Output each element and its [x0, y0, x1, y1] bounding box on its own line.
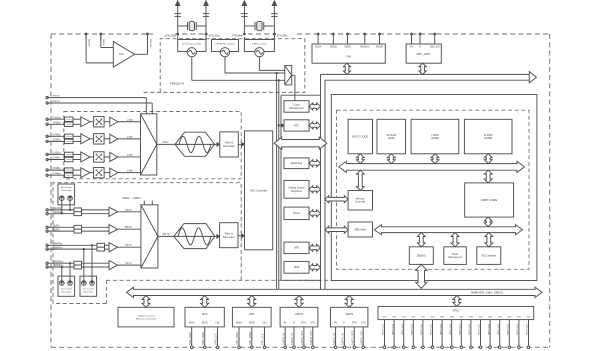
svg-text:TEMPINn: TEMPINn: [53, 247, 64, 249]
svg-text:Voltage & Current: Voltage & Current: [137, 314, 155, 317]
svg-text:GPIO_G08: GPIO_G08: [450, 323, 452, 335]
svg-text:SPI0_MISO: SPI0_MISO: [189, 332, 192, 345]
svg-text:PM: PM: [346, 55, 351, 59]
svg-text:SPI0_CLK: SPI0_CLK: [215, 333, 218, 345]
svg-text:VDDIO: VDDIO: [376, 47, 383, 49]
svg-text:500 Hz: 500 Hz: [125, 227, 133, 229]
svg-text:GPIO_G06: GPIO_G06: [469, 323, 471, 335]
svg-text:RLDINV: RLDINV: [88, 39, 90, 47]
svg-text:AC Current: AC Current: [61, 186, 72, 189]
svg-text:GPIO_G12: GPIO_G12: [412, 323, 414, 335]
svg-text:XTAL32kp: XTAL32kp: [165, 35, 177, 38]
svg-text:CH4INp: CH4INp: [52, 168, 61, 170]
svg-text:UART0_Tx: UART0_Tx: [291, 332, 294, 345]
svg-text:UART1_Rx: UART1_Rx: [333, 332, 336, 345]
svg-text:RLDIN: RLDIN: [102, 39, 104, 46]
svg-text:SPI1_MOSI: SPI1_MOSI: [249, 332, 252, 345]
svg-text:CLK: CLK: [262, 322, 267, 324]
svg-text:SPI0_MOSI: SPI0_MOSI: [202, 332, 205, 345]
svg-text:ATEST2: ATEST2: [53, 100, 62, 103]
svg-text:VDDD: VDDD: [344, 47, 351, 49]
svg-text:GPIO_G00: GPIO_G00: [527, 323, 529, 335]
svg-text:UART0_CTS: UART0_CTS: [310, 330, 313, 344]
svg-text:8 kHz: 8 kHz: [163, 142, 170, 144]
svg-text:APB Arbiter: APB Arbiter: [354, 228, 367, 231]
svg-text:CH4INn: CH4INn: [52, 173, 61, 175]
svg-text:eFB: eFB: [294, 247, 299, 250]
svg-text:SPI0: SPI0: [202, 312, 208, 316]
svg-text:Management: Management: [289, 107, 304, 110]
svg-text:SPI1: SPI1: [249, 312, 255, 316]
svg-text:UART0_Rx: UART0_Rx: [282, 332, 285, 345]
svg-text:ATEST1: ATEST1: [53, 95, 62, 98]
svg-text:GPIO_G05: GPIO_G05: [479, 323, 481, 335]
svg-text:FLEADn: FLEADn: [53, 211, 62, 214]
svg-text:CH2INp: CH2INp: [52, 134, 61, 136]
svg-text:GPIO_G03: GPIO_G03: [498, 323, 500, 335]
svg-text:BOOT CODE: BOOT CODE: [353, 134, 369, 138]
svg-text:GPIO_G14: GPIO_G14: [392, 323, 394, 335]
svg-text:Decimator: Decimator: [223, 235, 235, 239]
svg-text:CLK: CLK: [215, 322, 220, 324]
svg-text:RLD: RLD: [119, 53, 124, 56]
svg-text:2 kHz: 2 kHz: [127, 137, 134, 139]
svg-text:CH3INp: CH3INp: [52, 153, 61, 155]
svg-text:32BIT CORE: 32BIT CORE: [481, 198, 497, 202]
svg-text:GPIO_G10: GPIO_G10: [431, 323, 433, 335]
svg-text:CTS: CTS: [361, 322, 366, 324]
svg-text:SPI1_CLK: SPI1_CLK: [262, 333, 265, 345]
svg-text:MISO: MISO: [236, 322, 242, 324]
svg-text:VDDA: VDDA: [315, 46, 322, 49]
svg-text:GPIO_G04: GPIO_G04: [488, 323, 490, 335]
svg-text:SP RAM: SP RAM: [386, 133, 396, 137]
svg-text:RTC: RTC: [294, 124, 299, 127]
svg-text:IRQ Controller: IRQ Controller: [481, 254, 496, 257]
svg-text:MOSI: MOSI: [202, 322, 208, 324]
svg-text:DC Current: DC Current: [61, 288, 72, 291]
svg-text:FLEADp: FLEADp: [53, 207, 62, 210]
svg-text:GPIO_G07: GPIO_G07: [460, 323, 462, 335]
svg-text:ADC Controller: ADC Controller: [250, 188, 268, 192]
svg-text:GPIO_G01: GPIO_G01: [517, 323, 519, 335]
svg-text:Controller: Controller: [355, 201, 366, 204]
svg-text:Timers: Timers: [293, 212, 301, 215]
svg-text:XTAL8Mp: XTAL8Mp: [232, 35, 244, 38]
svg-text:DBG_EN: DBG_EN: [430, 47, 440, 49]
svg-text:VDDQ: VDDQ: [330, 47, 337, 49]
svg-text:CH3INn: CH3INn: [52, 158, 61, 160]
svg-text:Registers: Registers: [291, 190, 302, 193]
svg-text:(32KB): (32KB): [484, 136, 492, 140]
svg-text:Generator: Generator: [61, 291, 71, 294]
svg-text:GPIO_G02: GPIO_G02: [508, 323, 510, 335]
svg-text:Power: Power: [452, 253, 459, 256]
svg-text:50 Hz: 50 Hz: [125, 263, 132, 265]
svg-text:DBG_UART: DBG_UART: [417, 52, 431, 56]
svg-text:GPIO_G11: GPIO_G11: [421, 324, 423, 335]
svg-text:RTS: RTS: [302, 322, 307, 324]
svg-text:(4KB): (4KB): [388, 136, 395, 140]
svg-text:SPI1_MISO: SPI1_MISO: [236, 332, 239, 345]
svg-text:(32KB): (32KB): [431, 136, 439, 140]
svg-text:+VREFn: +VREFn: [132, 198, 141, 200]
svg-text:XTAL32kn: XTAL32kn: [209, 35, 221, 38]
svg-text:I RAM: I RAM: [431, 133, 438, 137]
svg-text:UART1_RTS: UART1_RTS: [352, 331, 355, 345]
svg-text:Management: Management: [448, 256, 462, 259]
svg-text:2 kHz: 2 kHz: [127, 120, 134, 122]
svg-text:CH2INn: CH2INn: [52, 140, 61, 142]
svg-text:Filter &: Filter &: [225, 141, 233, 145]
svg-text:RLDOUT: RLDOUT: [149, 39, 151, 48]
svg-text:50 Hz: 50 Hz: [125, 245, 132, 247]
svg-text:UART1_CTS: UART1_CTS: [360, 330, 363, 344]
svg-text:VBATn: VBATn: [53, 228, 61, 231]
svg-text:Generator: Generator: [61, 189, 71, 192]
svg-text:MISO: MISO: [189, 322, 195, 324]
svg-text:2 kHz: 2 kHz: [127, 171, 134, 173]
svg-text:RTS: RTS: [352, 322, 357, 324]
svg-text:Filter &: Filter &: [225, 231, 233, 235]
svg-text:GPIO_G13: GPIO_G13: [402, 323, 404, 335]
svg-text:DMA: DMA: [294, 266, 300, 269]
svg-text:GPIO: GPIO: [453, 308, 460, 312]
svg-text:D RAM: D RAM: [484, 133, 492, 137]
svg-text:TEMPINp: TEMPINp: [53, 244, 64, 246]
svg-text:-VREFp: -VREFp: [121, 198, 130, 200]
svg-text:UART1: UART1: [345, 312, 354, 316]
svg-text:GPIO_G09: GPIO_G09: [440, 323, 442, 335]
svg-text:250 Hz: 250 Hz: [162, 234, 170, 236]
svg-text:UART0: UART0: [295, 312, 304, 316]
svg-text:CTS: CTS: [310, 322, 315, 324]
svg-text:Decimator: Decimator: [223, 144, 235, 148]
svg-text:FREQSYN: FREQSYN: [170, 82, 184, 86]
svg-text:MOSI: MOSI: [249, 322, 255, 324]
svg-text:XTAL8Mn: XTAL8Mn: [277, 35, 289, 38]
svg-text:DEBUG: DEBUG: [417, 254, 426, 257]
svg-text:Watchdog: Watchdog: [291, 162, 303, 165]
svg-text:0.9MHz RC oscillator: 0.9MHz RC oscillator: [215, 43, 235, 46]
svg-text:UART1_Tx: UART1_Tx: [342, 332, 345, 345]
svg-text:UART0_RTS: UART0_RTS: [301, 331, 304, 345]
svg-text:8 MHz oscillator: 8 MHz oscillator: [252, 43, 267, 46]
svg-text:50 Hz: 50 Hz: [125, 210, 132, 212]
svg-text:GPIO_G15: GPIO_G15: [383, 323, 385, 335]
svg-text:TEMPEXp: TEMPEXp: [53, 261, 64, 263]
svg-text:VDDAUX: VDDAUX: [360, 46, 370, 49]
svg-text:DC Current: DC Current: [83, 288, 94, 291]
svg-text:CH1INp: CH1INp: [52, 117, 61, 119]
svg-text:Reference Generator: Reference Generator: [136, 317, 157, 320]
svg-text:32 kHz xtal oscillator: 32 kHz xtal oscillator: [182, 43, 201, 46]
svg-text:VBATp: VBATp: [53, 225, 61, 228]
svg-text:2 kHz: 2 kHz: [127, 155, 134, 157]
svg-text:AMBA APB / DMA / DEBUG: AMBA APB / DMA / DEBUG: [471, 290, 503, 294]
svg-text:CH1INn: CH1INn: [52, 122, 61, 124]
svg-text:Generator: Generator: [83, 291, 93, 294]
